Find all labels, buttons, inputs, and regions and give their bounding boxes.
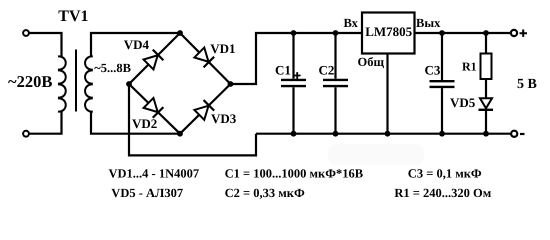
wire bridge edge top-left (129, 33, 180, 84)
terminal input top (23, 30, 29, 36)
label plus C1 (294, 72, 301, 79)
terminal output minus (511, 131, 517, 137)
node R1 top (483, 30, 489, 36)
svg-text:VD3: VD3 (211, 111, 237, 126)
svg-text:VD1: VD1 (210, 41, 235, 56)
svg-text:C3 = 0,1 мкФ: C3 = 0,1 мкФ (408, 166, 482, 180)
svg-text:VD5 - АЛ307: VD5 - АЛ307 (111, 186, 183, 200)
svg-text:Общ: Общ (358, 55, 385, 69)
svg-text:R1: R1 (462, 59, 477, 73)
svg-text:Вых: Вых (416, 16, 441, 30)
svg-text:VD1...4 - 1N4007: VD1...4 - 1N4007 (109, 166, 200, 180)
svg-text:~220В: ~220В (8, 72, 52, 91)
svg-text:C1: C1 (275, 63, 291, 78)
diode VD4 (143, 50, 163, 70)
wire bottom rail (256, 133, 511, 135)
wire bridge edge bottom-right (180, 84, 231, 134)
wire secondary top (91, 33, 180, 57)
svg-text:VD2: VD2 (132, 116, 157, 131)
capacitor C1 (292, 33, 294, 79)
wire output rail (415, 32, 511, 34)
wire common pin (386, 54, 388, 134)
terminal input bottom (23, 131, 29, 137)
wire bridge edge bottom-left (129, 84, 180, 134)
svg-text:C3: C3 (425, 62, 441, 77)
regulator U1 LM7805 (362, 13, 415, 54)
node C2 bottom (333, 131, 339, 137)
svg-text:VD5: VD5 (450, 95, 476, 110)
transformer TV1 primary winding (58, 56, 66, 111)
diode VD2 (143, 98, 163, 118)
node C2 top (333, 30, 339, 36)
transformer TV1 secondary winding (85, 56, 93, 111)
node VD5 bottom (483, 131, 489, 137)
capacitor C3 (441, 33, 443, 80)
terminal output plus (511, 30, 517, 36)
wire primary top (29, 33, 62, 57)
label minus (520, 133, 525, 135)
diode VD3 (194, 100, 214, 120)
label plus (520, 30, 528, 37)
node C3 bottom (439, 131, 445, 137)
node bridge bottom (177, 131, 183, 137)
node C1 top (291, 30, 297, 36)
node C3 top (439, 30, 445, 36)
node C1 bottom (291, 131, 297, 137)
svg-text:TV1: TV1 (58, 8, 88, 25)
capacitor C2 (334, 33, 336, 79)
svg-text:C2 = 0,33 мкФ: C2 = 0,33 мкФ (225, 186, 305, 200)
transformer core (75, 50, 77, 112)
svg-text:~5...8В: ~5...8В (94, 61, 131, 75)
svg-text:C2: C2 (319, 63, 335, 78)
node bridge top (177, 30, 183, 36)
diode VD1 (194, 47, 214, 67)
node common (385, 131, 391, 137)
svg-text:VD4: VD4 (124, 37, 150, 52)
svg-text:Вх: Вх (344, 16, 359, 30)
svg-text:LM7805: LM7805 (365, 24, 412, 39)
node bridge right (228, 81, 234, 87)
node bridge left (126, 81, 132, 87)
wire bridge plus to top rail (231, 33, 362, 84)
wire secondary bottom (91, 112, 180, 134)
diode VD5 (480, 98, 492, 108)
svg-text:R1 = 240...320 Ом: R1 = 240...320 Ом (394, 186, 491, 200)
wire primary bottom (29, 112, 62, 134)
wire bridge edge top-right (180, 33, 231, 84)
svg-text:5 В: 5 В (517, 77, 537, 92)
wire bridge minus detour (129, 84, 256, 155)
resistor R1 (485, 33, 487, 54)
svg-text:C1 = 100...1000 мкФ*16В: C1 = 100...1000 мкФ*16В (225, 166, 363, 180)
